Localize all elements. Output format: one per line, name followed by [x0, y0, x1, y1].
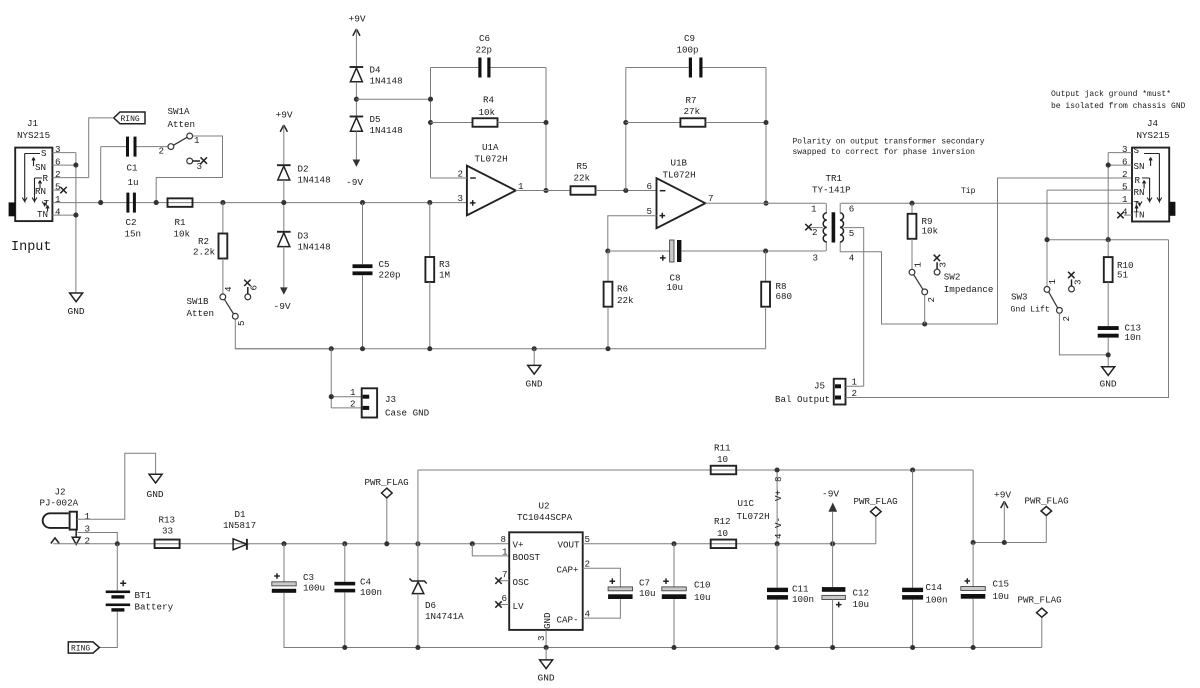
svg-text:3: 3: [197, 161, 203, 172]
svg-text:R4: R4: [483, 95, 495, 106]
wire U1A feedback right column: [545, 68, 547, 191]
junction right column / U1B output: [763, 201, 768, 206]
svg-text:U2: U2: [539, 501, 550, 512]
wire R3 bottom lead to rail: [429, 282, 431, 349]
J4 internal SN arrow: [1149, 158, 1152, 167]
switch SW2 Impedance: [909, 255, 993, 303]
note polarity annotation: [793, 138, 985, 158]
svg-text:SW1A: SW1A: [168, 106, 191, 117]
junction C8 line / R8: [763, 248, 768, 253]
wire R4 right lead: [498, 122, 547, 124]
net label RING (top): [114, 112, 145, 124]
capacitor C7 10u polarized: [608, 578, 655, 600]
svg-text:C2: C2: [126, 217, 137, 228]
wire R10 bottom lead to C13: [1107, 282, 1109, 326]
svg-text:10n: 10n: [1125, 332, 1142, 343]
wire J3 branch down: [330, 349, 332, 408]
junction C4 on ground rail: [342, 645, 347, 650]
wire pin4 net up to J4 pin2: [998, 178, 1133, 324]
svg-text:R3: R3: [439, 259, 450, 270]
junction SW1A bypass on main line: [154, 200, 159, 205]
svg-text:3: 3: [813, 253, 819, 264]
capacitor C1: [126, 137, 139, 188]
svg-text:1: 1: [811, 204, 817, 215]
wire R9 top lead: [911, 203, 913, 214]
svg-text:7: 7: [502, 569, 508, 580]
diode D6 1N4741A zener: [410, 579, 465, 623]
svg-text:Output jack ground *must*: Output jack ground *must*: [1051, 90, 1171, 99]
wire R9 bottom lead: [911, 239, 913, 269]
wire U1B pin5 lead: [608, 216, 657, 251]
svg-text:C1: C1: [127, 163, 139, 174]
svg-text:OSC: OSC: [513, 577, 530, 588]
wire C5 top lead: [362, 203, 364, 265]
svg-text:R1: R1: [175, 217, 187, 228]
power -9V (D5): [346, 131, 363, 188]
svg-text:GND: GND: [147, 489, 164, 500]
junction C14 on ground rail: [910, 645, 915, 650]
junction J1 pin4: [73, 213, 78, 218]
junction C12 on ground rail: [830, 645, 835, 650]
svg-text:PWR_FLAG: PWR_FLAG: [1025, 496, 1069, 507]
svg-text:SW2: SW2: [944, 272, 961, 283]
svg-text:C6: C6: [479, 33, 490, 44]
svg-text:1: 1: [55, 194, 61, 205]
junction D4/D5 midpoint: [354, 97, 359, 102]
wire J1 pin2 to RING label: [89, 118, 114, 178]
wire D4/D5 midpoint to U1A feedback column: [356, 98, 430, 100]
wire C1 left lead: [101, 146, 126, 148]
wire TR1 pin4 to SW2 bottom net: [840, 252, 997, 324]
wire BT1 bottom lead: [99, 612, 117, 648]
svg-text:2: 2: [926, 297, 937, 303]
svg-text:6: 6: [647, 181, 653, 192]
svg-text:swapped to correct for phase i: swapped to correct for phase inversion: [793, 148, 976, 157]
junction +9V stub: [1002, 540, 1007, 545]
svg-text:1: 1: [502, 547, 508, 558]
svg-text:3: 3: [55, 144, 61, 155]
wire D6 bottom lead: [417, 594, 419, 648]
svg-text:R2: R2: [198, 236, 209, 247]
junction U1B feedback column / pin6 line: [623, 188, 628, 193]
svg-text:RN: RN: [35, 186, 46, 197]
svg-text:1N4148: 1N4148: [370, 76, 403, 87]
ground GND below C13: [1100, 367, 1117, 390]
svg-text:Polarity on output transformer: Polarity on output transformer secondary: [793, 138, 985, 147]
wire C8 line left: [608, 250, 670, 252]
capacitor C5: [353, 259, 401, 281]
svg-text:2: 2: [350, 399, 356, 410]
svg-text:D2: D2: [298, 164, 309, 175]
svg-text:+9V: +9V: [349, 14, 366, 25]
svg-text:3: 3: [536, 635, 547, 641]
wire R4 left lead: [431, 122, 473, 124]
svg-text:TL072H: TL072H: [663, 170, 696, 181]
capacitor C9: [677, 33, 703, 78]
J1 internal SN arrow: [32, 158, 35, 167]
svg-text:5: 5: [55, 182, 61, 193]
U2 pin6 LV no-connect stub and X: [495, 601, 509, 607]
wire C12 bottom lead: [832, 600, 834, 648]
svg-text:220p: 220p: [379, 270, 401, 281]
wire C9 left lead: [626, 67, 689, 69]
svg-text:3: 3: [1072, 279, 1083, 285]
wire J1 pin4 stub: [52, 214, 76, 216]
svg-text:GND: GND: [542, 612, 553, 629]
power flag PWR_FLAG (+9V): [1025, 496, 1069, 543]
junction R3 branch on main line: [427, 200, 432, 205]
wire U2 pin1 jog: [472, 544, 509, 556]
wire R3 top lead: [429, 203, 431, 257]
wire Tip line TR1 pin6 to J4 pin1: [841, 202, 1132, 204]
svg-text:TL072H: TL072H: [475, 154, 508, 165]
junction U2 GND on rail: [544, 645, 549, 650]
capacitor C3 100u polarized: [272, 572, 325, 594]
resistor R3: [425, 257, 450, 282]
svg-text:Atten: Atten: [187, 308, 215, 319]
wire U1A feedback left column: [430, 68, 432, 179]
svg-text:10k: 10k: [174, 229, 191, 240]
svg-text:33: 33: [162, 526, 173, 537]
svg-text:LV: LV: [513, 601, 525, 612]
wire J1 pin3 stub: [52, 152, 76, 154]
ground GND on rail: [526, 349, 543, 390]
svg-text:100u: 100u: [303, 583, 325, 594]
J1 internal R contact: [32, 178, 42, 202]
svg-text:C3: C3: [303, 572, 314, 583]
svg-text:D6: D6: [425, 600, 436, 611]
wire C7 bottom to U2 pin4 CAP-: [583, 599, 621, 618]
junction C4 branch: [342, 541, 347, 546]
svg-text:NYS215: NYS215: [17, 130, 50, 141]
J1 internal S contact: [22, 154, 40, 202]
svg-text:PWR_FLAG: PWR_FLAG: [854, 496, 898, 507]
wire U1A pin2 lead: [431, 177, 467, 179]
svg-text:7: 7: [708, 193, 714, 204]
ground GND below J1: [68, 293, 85, 317]
resistor R6: [604, 282, 634, 307]
svg-text:GND: GND: [538, 673, 555, 684]
J1 pin5 no-connect stub and X: [52, 187, 66, 193]
wire J3 pin2 stub: [331, 407, 361, 409]
svg-text:51: 51: [1117, 270, 1129, 281]
wire J3 pin1 stub: [331, 396, 361, 398]
wire U2 pin3 GND down: [545, 630, 547, 648]
svg-text:TL072H: TL072H: [737, 511, 770, 522]
svg-text:8: 8: [501, 534, 507, 545]
svg-text:R6: R6: [617, 284, 628, 295]
resistor R1: [168, 198, 193, 239]
svg-text:BOOST: BOOST: [513, 552, 541, 563]
svg-text:1: 1: [913, 262, 924, 268]
capacitor C11 100n: [767, 584, 814, 606]
svg-text:CAP+: CAP+: [557, 564, 579, 575]
capacitor C13: [1098, 323, 1141, 344]
J4 pin4 no-connect stub and X: [1117, 212, 1132, 218]
junction pin5 column / C8 line: [605, 248, 610, 253]
capacitor C15 10u polarized: [961, 578, 1009, 602]
wire C6 top left lead: [431, 67, 479, 69]
svg-text:S: S: [1134, 145, 1140, 156]
svg-text:GND: GND: [526, 379, 543, 390]
resistor R8: [761, 281, 792, 307]
junction C1 branch on main line: [98, 200, 103, 205]
wire C13 bottom lead: [1107, 338, 1109, 367]
svg-text:2: 2: [1122, 169, 1128, 180]
wire J1 pin6 stub: [52, 164, 76, 166]
svg-text:RING: RING: [121, 115, 140, 124]
wire C14 bottom lead: [912, 600, 914, 648]
wire R2 top lead: [222, 203, 224, 234]
svg-text:TC1044SCPA: TC1044SCPA: [517, 512, 573, 523]
battery BT1: [106, 580, 174, 612]
connector J3 Case GND: [350, 387, 430, 419]
svg-text:1: 1: [350, 387, 356, 398]
wire U1A output to R5: [516, 190, 571, 192]
svg-text:R11: R11: [714, 443, 731, 454]
diode D5 1N4148: [350, 114, 403, 136]
svg-text:100n: 100n: [360, 587, 382, 598]
svg-text:Bal Output: Bal Output: [775, 394, 830, 405]
diode D3 1N4148: [277, 231, 331, 253]
svg-text:1N4148: 1N4148: [370, 125, 403, 136]
junction U1C pin4 / C11 on VOUT line: [775, 541, 780, 546]
wire SW2 common down: [924, 295, 926, 324]
junction D6 / +9V rail column: [415, 541, 420, 546]
wire R5 to U1B pin6: [596, 190, 657, 192]
svg-text:1N4148: 1N4148: [298, 242, 331, 253]
wire C11 bottom lead: [776, 600, 778, 648]
svg-text:D5: D5: [370, 114, 381, 125]
wire TR1 pin5 to J5 pin1: [844, 228, 864, 387]
wire +9V net horizontal: [973, 542, 1046, 544]
svg-text:100p: 100p: [677, 45, 699, 56]
svg-text:6: 6: [502, 593, 508, 604]
ground GND below U2: [538, 648, 555, 684]
resistor R2: [193, 234, 227, 259]
power -9V (D3): [274, 247, 291, 312]
op-amp U1C TL072H power pins: [737, 470, 785, 544]
svg-text:4: 4: [223, 286, 234, 292]
J4 internal R contact: [1142, 178, 1152, 202]
wire SW1B common down to rail: [235, 319, 331, 349]
junction U2 pins 8/1 tie: [470, 541, 475, 546]
transformer TR1 TY-141P: [811, 173, 855, 264]
svg-text:1: 1: [85, 511, 91, 522]
junction J4 pin6: [1106, 163, 1111, 168]
svg-text:4: 4: [55, 207, 61, 218]
svg-text:1: 1: [194, 135, 200, 146]
J4 sleeve tab: [1169, 202, 1175, 216]
capacitor C8 10u polarized: [660, 240, 683, 293]
wire R2 bottom lead: [222, 259, 224, 295]
resistor R5: [571, 161, 596, 195]
svg-text:-9V: -9V: [274, 301, 291, 312]
svg-text:PWR_FLAG: PWR_FLAG: [365, 477, 409, 488]
junction rail / GND: [532, 346, 537, 351]
svg-text:6: 6: [55, 157, 61, 168]
svg-text:BT1: BT1: [135, 590, 152, 601]
wire D4 to D5: [355, 82, 357, 116]
svg-text:PWR_FLAG: PWR_FLAG: [1018, 595, 1062, 606]
svg-text:10u: 10u: [667, 282, 684, 293]
resistor R10: [1104, 257, 1134, 282]
svg-text:10u: 10u: [694, 592, 711, 603]
power +9V (bottom): [994, 490, 1011, 543]
svg-text:GND: GND: [68, 306, 85, 317]
junction R9 on Tip line: [909, 201, 914, 206]
connector J1: [9, 118, 61, 221]
svg-text:C12: C12: [853, 588, 870, 599]
IC U2 TC1044SCPA: [501, 501, 591, 642]
svg-text:V+: V+: [773, 490, 784, 501]
svg-text:2: 2: [85, 536, 91, 547]
wire R10 top lead: [1107, 240, 1109, 257]
wire C1 branch up: [100, 147, 102, 203]
wire C15 top lead: [972, 543, 974, 587]
svg-text:R5: R5: [577, 161, 588, 172]
svg-text:C14: C14: [926, 582, 943, 593]
svg-text:TR1: TR1: [826, 173, 843, 184]
junction PWR_FLAG on V+ line: [384, 541, 389, 546]
junction feedback column / R7: [623, 120, 628, 125]
svg-text:4: 4: [773, 533, 784, 539]
wire C3 top lead: [283, 544, 285, 582]
svg-text:Tip: Tip: [961, 187, 976, 196]
svg-text:D4: D4: [370, 65, 382, 76]
wire C10 top lead: [673, 544, 675, 587]
svg-text:Atten: Atten: [168, 119, 196, 130]
junction feedback column / R4: [428, 120, 433, 125]
svg-text:Case GND: Case GND: [385, 408, 430, 419]
svg-text:S: S: [41, 148, 47, 159]
capacitor C4 100n: [334, 577, 382, 599]
note output jack annotation: [1051, 90, 1186, 111]
wire C3 bottom lead to ground rail: [284, 593, 1042, 648]
junction C11 on ground rail: [775, 645, 780, 650]
connector J5 Bal Output: [775, 377, 858, 406]
svg-text:5: 5: [1122, 182, 1128, 193]
junction SW2 common on pin4 net: [922, 321, 927, 326]
J1 body box: [15, 148, 52, 222]
svg-text:10u: 10u: [993, 591, 1010, 602]
wire BT1 top lead: [116, 544, 118, 591]
capacitor C10 10u polarized: [662, 578, 711, 603]
svg-text:D3: D3: [298, 231, 309, 242]
junction C5 branch on main line: [360, 200, 365, 205]
svg-text:TN: TN: [37, 209, 48, 220]
svg-text:Battery: Battery: [135, 602, 174, 613]
svg-text:T: T: [44, 198, 50, 209]
power flag PWR_FLAG (-9V): [854, 496, 898, 544]
svg-text:V+: V+: [513, 539, 524, 550]
J4 internal TN arrow: [1135, 206, 1138, 212]
resistor R9: [908, 214, 939, 239]
svg-text:5: 5: [849, 228, 855, 239]
svg-text:1N4148: 1N4148: [298, 175, 331, 186]
junction rail / J3: [329, 346, 334, 351]
wire C4 top lead: [344, 544, 346, 582]
svg-text:680: 680: [776, 291, 793, 302]
wire main V+ line to U2 pin8: [53, 543, 509, 545]
svg-text:U1B: U1B: [671, 158, 688, 169]
svg-text:SW3: SW3: [1011, 292, 1028, 303]
svg-text:1N4741A: 1N4741A: [425, 611, 464, 622]
wire D2 to main line: [283, 180, 285, 231]
svg-text:R: R: [43, 173, 49, 184]
wire J4 pins3/6 ground column: [1107, 153, 1109, 240]
svg-text:22k: 22k: [617, 295, 634, 306]
wire main input line J1 pin1 to U1A pin3: [52, 202, 467, 204]
svg-text:R12: R12: [714, 516, 731, 527]
svg-text:PJ-002A: PJ-002A: [40, 498, 79, 509]
wire R6 top lead: [607, 251, 609, 282]
wire C12 top lead: [832, 544, 834, 587]
junction right column / R4: [543, 120, 548, 125]
wire J1 pin2 stub: [52, 177, 88, 179]
svg-text:U1C: U1C: [738, 498, 755, 509]
svg-text:22p: 22p: [476, 45, 493, 56]
svg-text:TN: TN: [1134, 210, 1145, 221]
J1 internal TN arrow: [46, 206, 49, 212]
svg-text:100n: 100n: [926, 595, 948, 606]
wire R7 right lead: [705, 122, 766, 124]
U2 pin7 OSC no-connect stub and X: [495, 578, 509, 584]
junction battery branch: [115, 541, 120, 546]
junction J1 pin6: [73, 163, 78, 168]
power flag PWR_FLAG (V+ line): [365, 477, 409, 544]
diode D1 1N5817: [223, 509, 256, 550]
TR1 pin2 no-connect stub and X: [805, 224, 823, 230]
wire R7 left lead: [626, 122, 681, 124]
junction right column / R7: [763, 120, 768, 125]
svg-text:3: 3: [1122, 144, 1128, 155]
svg-text:4: 4: [849, 253, 855, 264]
capacitor C14 100n: [902, 582, 947, 606]
wire +9V rail corner down to +9V net: [972, 470, 974, 543]
junction C10 on ground rail: [671, 645, 676, 650]
junction D2/D3 on main line: [281, 200, 286, 205]
svg-text:8: 8: [773, 476, 784, 482]
wire C14 top lead: [912, 470, 914, 588]
wire C6 right lead: [491, 67, 547, 69]
wire U1B output to TR1 pin1: [705, 202, 826, 204]
svg-text:NYS215: NYS215: [1137, 130, 1170, 141]
svg-text:J5: J5: [814, 381, 825, 392]
svg-text:J3: J3: [385, 394, 396, 405]
resistor R12: [711, 516, 737, 548]
wire analog ground rail: [235, 348, 765, 350]
wire SW1A pin1 bypass loop: [156, 136, 222, 203]
wire C11 top lead: [776, 544, 778, 588]
diode D2 1N4148: [277, 164, 331, 186]
resistor R13: [155, 515, 180, 549]
svg-text:J2: J2: [55, 487, 66, 498]
wire C5 bottom lead to rail: [362, 275, 364, 349]
power +9V (D4): [349, 14, 366, 67]
svg-text:10k: 10k: [922, 226, 939, 237]
connector J4: [1122, 118, 1175, 222]
svg-text:3: 3: [938, 262, 949, 268]
svg-text:C4: C4: [360, 577, 372, 588]
svg-text:C9: C9: [684, 33, 695, 44]
wire C4 bottom lead: [344, 592, 346, 647]
switch SW1B: [187, 280, 260, 326]
svg-text:10u: 10u: [853, 599, 870, 610]
junction R10 column / jack ground: [1106, 237, 1111, 242]
svg-text:-9V: -9V: [822, 489, 839, 500]
svg-text:R: R: [1135, 175, 1141, 186]
